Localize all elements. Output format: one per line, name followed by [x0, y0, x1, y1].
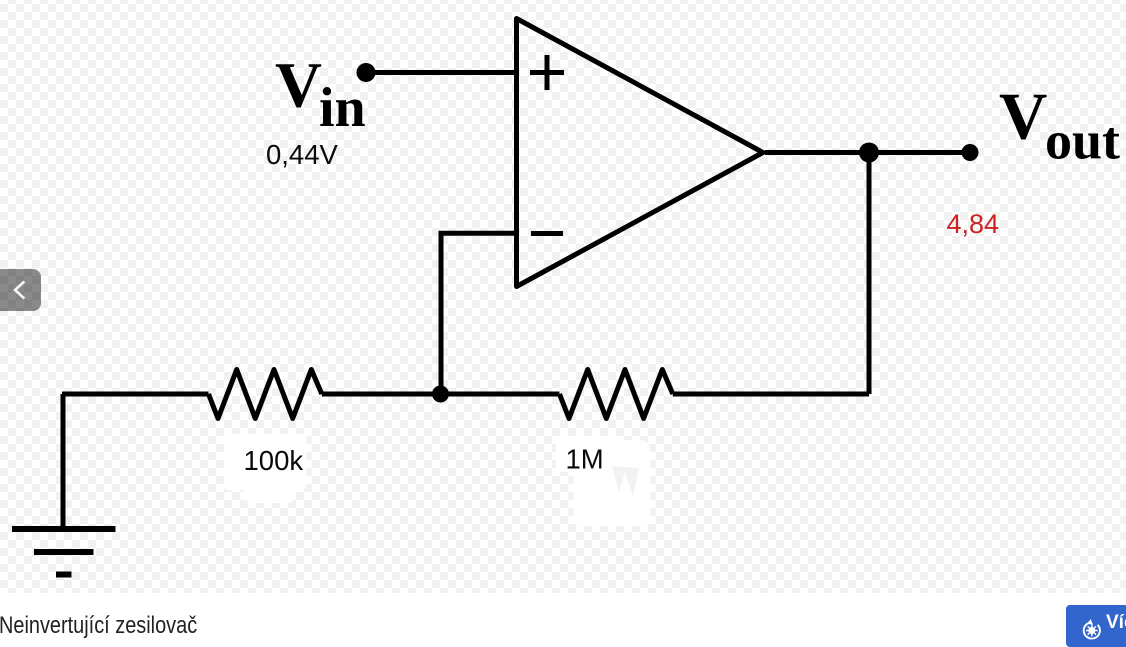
image title [0, 612, 197, 640]
wire Vin to op-amp + input [372, 70, 519, 75]
bottom bar [0, 593, 1126, 647]
wire ground leg horizontal [62, 392, 209, 397]
op-amp plus input marker [530, 55, 564, 90]
svg-text:1M: 1M [566, 444, 604, 475]
ghost mark in white patch [612, 466, 639, 496]
svg-text:out: out [1045, 111, 1120, 171]
white patch behind 100k label [224, 434, 306, 503]
svg-text:V: V [999, 80, 1047, 154]
wire node to R2 [441, 392, 560, 397]
svg-text:4,84: 4,84 [947, 209, 1000, 239]
wire inverting input [439, 231, 520, 236]
wire ground vertical [61, 394, 66, 529]
commons logo [1066, 605, 1106, 647]
wire feedback vertical to node [439, 233, 444, 394]
node Vin terminal dot [357, 63, 376, 82]
wire R1 to node [322, 392, 441, 397]
blue details button [1066, 605, 1126, 647]
node junction dot (inverting node) [432, 386, 449, 403]
wire R2 to feedback riser [673, 392, 869, 397]
op-amp minus input marker [531, 231, 563, 236]
svg-text:in: in [319, 77, 366, 139]
svg-text:0,44V: 0,44V [266, 139, 339, 170]
prev-image nav button with chevron [0, 269, 41, 311]
ground symbol [12, 529, 116, 575]
op-amp U1 triangle [517, 19, 764, 287]
svg-text:100k: 100k [244, 445, 304, 476]
svg-text:V: V [275, 50, 322, 122]
resistor R2 1M [560, 370, 673, 419]
node output junction dot [859, 143, 879, 163]
wire feedback riser vertical [867, 153, 872, 395]
resistor R1 100k [209, 370, 322, 419]
wire op-amp output [765, 150, 970, 155]
node Vout terminal dot [962, 144, 979, 161]
white patch behind 1M label [556, 436, 650, 526]
